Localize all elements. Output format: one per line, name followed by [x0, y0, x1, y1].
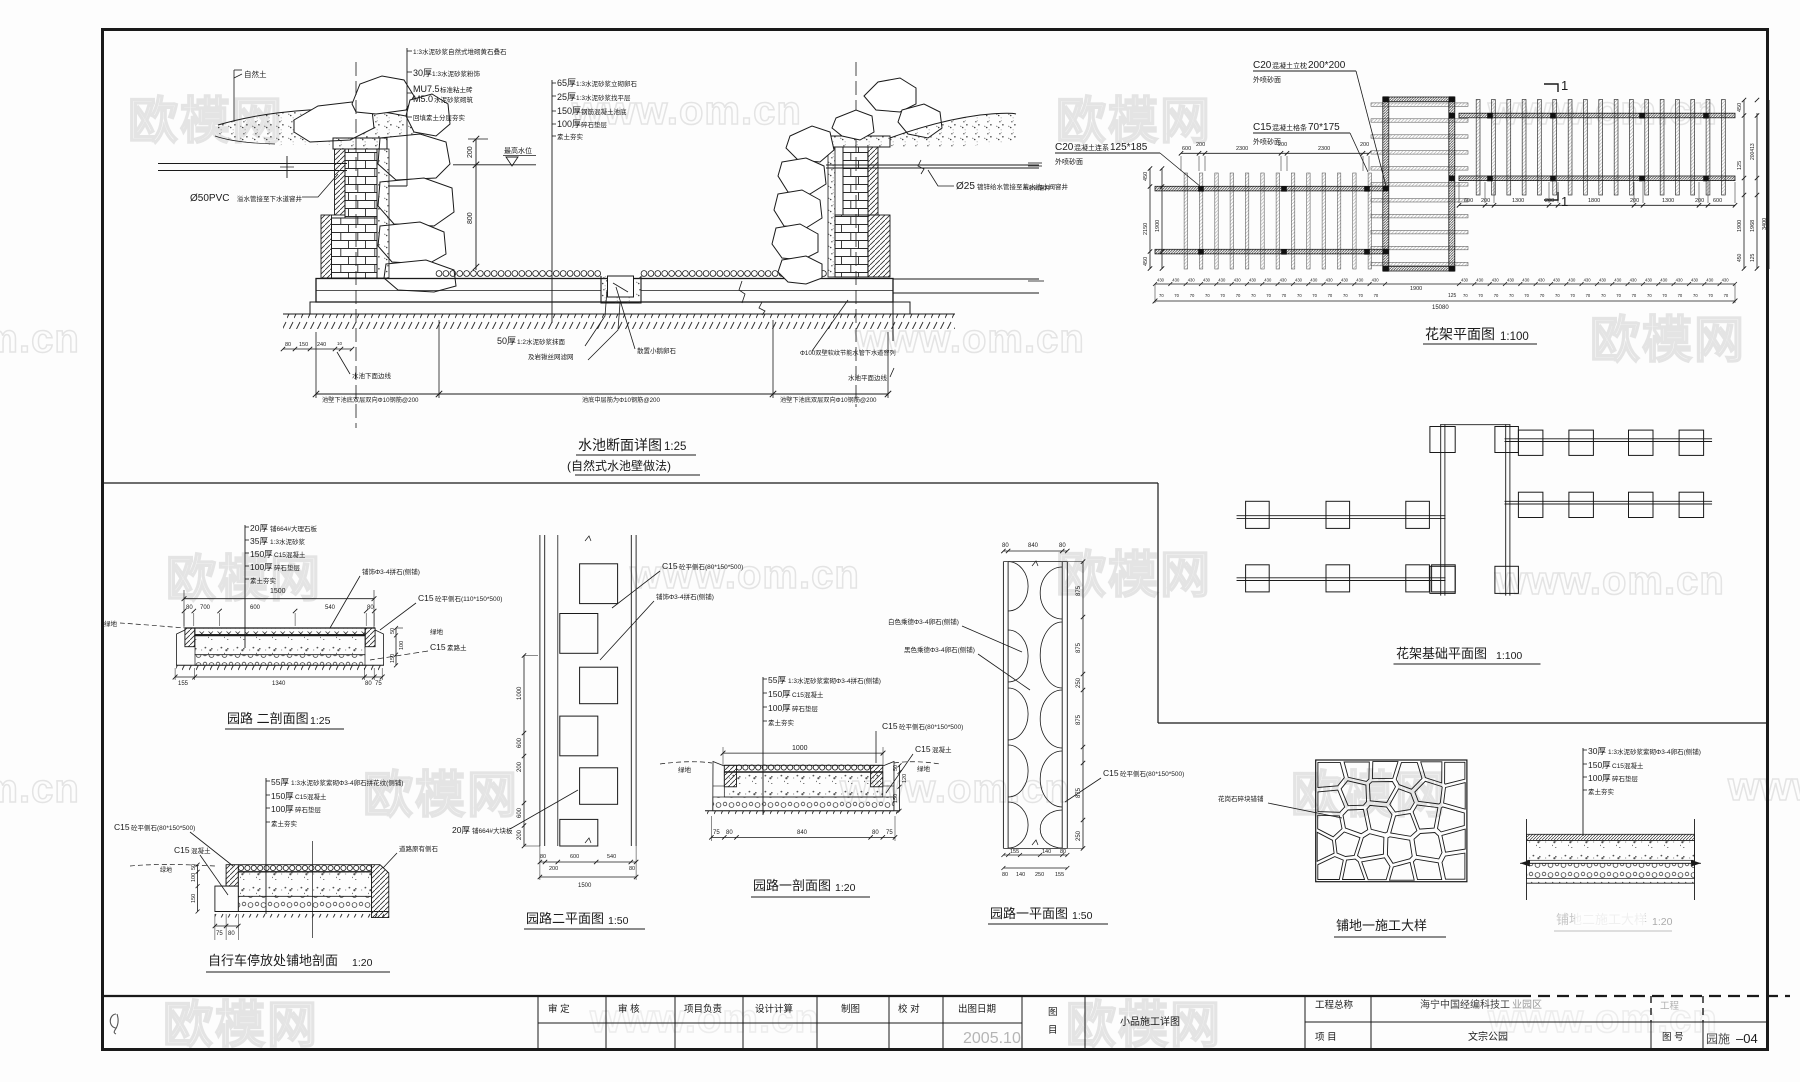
PVC overflow pipe	[158, 163, 347, 165]
svg-text:铺664#大理石板: 铺664#大理石板	[270, 524, 317, 533]
svg-text:C20: C20	[1253, 60, 1272, 71]
svg-text:70: 70	[1282, 293, 1287, 298]
svg-text:C15: C15	[114, 822, 130, 832]
svg-text:–04: –04	[1736, 1031, 1758, 1046]
svg-text:1500: 1500	[270, 588, 286, 595]
right wing footing beams	[1505, 438, 1712, 440]
svg-text:碎石垫层: 碎石垫层	[792, 704, 819, 713]
left wing slats	[1184, 173, 1187, 269]
svg-text:75: 75	[375, 681, 382, 687]
svg-text:素土夯实: 素土夯实	[271, 819, 298, 828]
svg-text:80: 80	[228, 931, 235, 937]
svg-text:70: 70	[1463, 293, 1468, 298]
svg-text:25厚: 25厚	[557, 92, 576, 102]
svg-text:混凝土立枕: 混凝土立枕	[1272, 61, 1307, 70]
svg-text:M5.0: M5.0	[413, 94, 433, 104]
svg-text:1:3水泥砂浆: 1:3水泥砂浆	[270, 537, 306, 546]
svg-text:70: 70	[1708, 293, 1713, 298]
svg-text:250: 250	[1035, 872, 1044, 878]
road 1 cross-section 1:20	[660, 675, 963, 897]
svg-text:200: 200	[549, 866, 558, 872]
svg-text:1:3水泥砂浆紫砌Φ3-4卵石拼花纹(侧铺): 1:3水泥砂浆紫砌Φ3-4卵石拼花纹(侧铺)	[291, 778, 403, 787]
svg-text:小品施工详图: 小品施工详图	[1120, 1015, 1180, 1028]
svg-text:430: 430	[1630, 278, 1638, 283]
svg-text:Φ100双壁软纹节能水管下水道窨列: Φ100双壁软纹节能水管下水道窨列	[800, 349, 896, 357]
svg-text:校 对: 校 对	[898, 1003, 920, 1015]
svg-text:150: 150	[390, 654, 396, 663]
svg-text:70: 70	[1509, 293, 1514, 298]
svg-text:150厚: 150厚	[768, 689, 791, 699]
section body	[736, 765, 741, 770]
centerline	[312, 841, 314, 938]
svg-text:1900: 1900	[1410, 286, 1422, 292]
svg-text:430: 430	[1476, 278, 1484, 283]
svg-text:240: 240	[317, 342, 326, 348]
svg-text:65厚: 65厚	[557, 78, 576, 88]
road 2 plan 1:50	[452, 535, 743, 929]
section body	[1527, 834, 1695, 840]
pergola plan 1:100	[1028, 60, 1769, 344]
svg-text:700: 700	[200, 605, 211, 611]
svg-text:450: 450	[1143, 257, 1149, 266]
svg-text:430: 430	[1660, 278, 1668, 283]
svg-text:430: 430	[1492, 278, 1500, 283]
svg-text:80: 80	[872, 830, 879, 836]
svg-text:混凝土连系: 混凝土连系	[1074, 143, 1109, 152]
svg-text:花架基础平面图: 花架基础平面图	[1396, 646, 1487, 661]
section body	[238, 865, 243, 870]
svg-text:70*175: 70*175	[1308, 122, 1340, 133]
svg-text:200: 200	[1481, 198, 1490, 204]
svg-text:C15: C15	[174, 845, 190, 855]
svg-text:875: 875	[1076, 714, 1082, 725]
right wing mid dim	[1459, 204, 1735, 206]
svg-text:430: 430	[1584, 278, 1592, 283]
svg-text:600: 600	[517, 807, 523, 818]
svg-text:欧模网: 欧模网	[1590, 312, 1746, 368]
svg-text:制图: 制图	[841, 1003, 860, 1015]
svg-text:80: 80	[629, 866, 635, 872]
svg-text:砼平侧石(80*150*500): 砼平侧石(80*150*500)	[899, 722, 963, 731]
sump pit	[601, 276, 641, 303]
svg-text:混凝土: 混凝土	[932, 745, 952, 754]
svg-text:80: 80	[285, 342, 291, 348]
right pond wall	[831, 136, 890, 147]
svg-text:工程: 工程	[1660, 1001, 1680, 1012]
svg-text:www.om.cn: www.om.cn	[1494, 559, 1725, 603]
pond cross-section detail	[158, 47, 1069, 475]
svg-text:430: 430	[1599, 278, 1607, 283]
bottom dims	[711, 836, 895, 838]
svg-text:875: 875	[1076, 585, 1082, 596]
svg-text:600: 600	[570, 854, 579, 860]
svg-text:图: 图	[1048, 1007, 1058, 1018]
bottom dims	[175, 676, 382, 678]
svg-text:园路 二剖面图: 园路 二剖面图	[227, 711, 309, 726]
svg-text:1:25: 1:25	[310, 715, 331, 727]
svg-text:430: 430	[1372, 278, 1380, 283]
svg-text:碎石垫层: 碎石垫层	[581, 120, 608, 129]
svg-text:最高水位: 最高水位	[504, 146, 532, 155]
svg-text:2300: 2300	[1236, 146, 1248, 152]
curbs	[724, 765, 736, 787]
svg-text:1968: 1968	[1750, 220, 1756, 232]
right dim column	[1082, 562, 1084, 849]
svg-text:450: 450	[1737, 253, 1743, 262]
svg-text:自然土: 自然土	[244, 69, 267, 79]
vertical dim 200 800	[475, 139, 477, 270]
notes column	[265, 778, 267, 914]
right wing footings	[1518, 430, 1543, 455]
svg-text:及岩锹丝网滤网: 及岩锹丝网滤网	[528, 352, 574, 361]
svg-text:1:3水泥砂浆紫砌Φ3-4卵石(侧铺): 1:3水泥砂浆紫砌Φ3-4卵石(侧铺)	[1608, 747, 1701, 756]
left curb	[226, 865, 238, 886]
wavy cobble pattern	[1008, 562, 1028, 611]
svg-text:70: 70	[1570, 293, 1575, 298]
svg-text:1800: 1800	[1588, 198, 1600, 204]
left dim column	[523, 655, 525, 846]
svg-text:园路二平面图: 园路二平面图	[526, 911, 604, 926]
svg-text:砼平侧石(80*150*500): 砼平侧石(80*150*500)	[131, 823, 195, 832]
svg-text:70: 70	[1297, 293, 1302, 298]
middle footing beams	[1440, 425, 1442, 596]
svg-text:C15混凝土: C15混凝土	[792, 690, 824, 699]
svg-text:50: 50	[191, 864, 197, 870]
svg-text:素土夯实: 素土夯实	[1588, 787, 1615, 796]
svg-text:140: 140	[1042, 849, 1051, 855]
paving 2 construction detail	[1520, 746, 1701, 931]
svg-text:2005.10: 2005.10	[963, 1030, 1021, 1047]
svg-text:10: 10	[337, 341, 343, 346]
svg-text:2300: 2300	[1318, 146, 1330, 152]
svg-text:125*185: 125*185	[1110, 142, 1148, 153]
svg-text:花岗石碎块错铺: 花岗石碎块错铺	[1218, 794, 1264, 803]
svg-text:C20: C20	[1055, 142, 1074, 153]
svg-text:外喷砂面: 外喷砂面	[1253, 75, 1281, 84]
svg-text:水池下面边线: 水池下面边线	[352, 371, 392, 380]
middle footings	[1430, 427, 1455, 453]
svg-text:1900: 1900	[1737, 220, 1743, 232]
svg-text:绿地: 绿地	[678, 765, 692, 774]
green edge dashes	[120, 623, 184, 628]
svg-text:250: 250	[1076, 830, 1082, 841]
svg-text:150: 150	[299, 342, 308, 348]
left dims	[197, 865, 199, 912]
section divider lines	[104, 482, 1158, 484]
svg-text:80: 80	[1059, 543, 1066, 549]
pond floor slab	[316, 279, 893, 303]
right wing slats	[1476, 100, 1480, 196]
svg-text:www.om.cn: www.om.cn	[1727, 765, 1800, 809]
svg-text:200: 200	[1360, 142, 1369, 148]
right vertical dims	[1743, 100, 1745, 269]
svg-text:白色乘德Φ3-4卵石(侧铺): 白色乘德Φ3-4卵石(侧铺)	[888, 617, 959, 626]
svg-text:20厚: 20厚	[250, 523, 268, 533]
svg-text:黑色乘德Φ3-4卵石(侧铺): 黑色乘德Φ3-4卵石(侧铺)	[904, 645, 975, 654]
svg-text:绿地: 绿地	[104, 619, 118, 628]
svg-text:70: 70	[1266, 293, 1271, 298]
svg-text:70: 70	[1478, 293, 1483, 298]
svg-text:450: 450	[1737, 103, 1743, 112]
svg-text:800: 800	[467, 212, 474, 224]
svg-text:150: 150	[893, 794, 899, 803]
svg-text:840: 840	[797, 830, 808, 836]
svg-text:图 号: 图 号	[1662, 1032, 1684, 1043]
svg-text:1340: 1340	[272, 681, 286, 687]
svg-text:540: 540	[325, 605, 336, 611]
svg-text:道路原有侧石: 道路原有侧石	[399, 844, 439, 853]
svg-text:430: 430	[1568, 278, 1576, 283]
svg-text:铺饰Φ3-4拼石(侧铺): 铺饰Φ3-4拼石(侧铺)	[362, 567, 420, 576]
svg-text:430: 430	[1341, 278, 1349, 283]
svg-text:Ø50PVC: Ø50PVC	[190, 193, 229, 204]
svg-text:C15: C15	[1253, 122, 1272, 133]
svg-text:70: 70	[1374, 293, 1379, 298]
svg-text:审 核: 审 核	[618, 1003, 640, 1015]
svg-text:100厚: 100厚	[557, 119, 581, 129]
strip edges	[1002, 562, 1004, 849]
svg-text:200*200: 200*200	[1308, 60, 1346, 71]
svg-text:80: 80	[1002, 543, 1009, 549]
svg-text:工程总称: 工程总称	[1315, 999, 1354, 1011]
svg-text:125: 125	[1448, 293, 1457, 299]
svg-text:(自然式水池壁做法): (自然式水池壁做法)	[567, 458, 671, 473]
svg-text:150厚: 150厚	[557, 106, 581, 116]
centerlines	[355, 62, 357, 428]
svg-text:30厚: 30厚	[1588, 746, 1606, 756]
svg-text:80: 80	[726, 830, 733, 836]
sub dims	[182, 609, 186, 613]
right small dims	[395, 628, 397, 665]
svg-text:200: 200	[1545, 198, 1554, 204]
svg-text:75: 75	[886, 830, 893, 836]
svg-text:海宁中国经编科技工: 海宁中国经编科技工	[1420, 998, 1510, 1011]
svg-text:碎石垫层: 碎石垫层	[274, 563, 301, 572]
svg-text:200: 200	[467, 146, 474, 158]
right wing beams	[1459, 113, 1735, 118]
svg-text:150: 150	[191, 894, 197, 903]
paving squares	[580, 564, 618, 604]
svg-text:2150: 2150	[1143, 223, 1149, 235]
svg-text:600: 600	[1182, 146, 1191, 152]
svg-text:840: 840	[1028, 543, 1039, 549]
svg-text:600: 600	[1713, 198, 1722, 204]
svg-text:绿地: 绿地	[160, 866, 172, 874]
svg-text:水泥砂浆砌筑: 水泥砂浆砌筑	[434, 95, 474, 104]
svg-text:C15: C15	[1103, 768, 1119, 778]
svg-text:混凝土格条: 混凝土格条	[1272, 123, 1307, 132]
svg-text:430: 430	[1706, 278, 1714, 283]
svg-text:C15: C15	[662, 561, 678, 571]
svg-text:150厚: 150厚	[250, 549, 273, 559]
bicycle parking paving section 1:20	[114, 777, 439, 972]
svg-text:100厚: 100厚	[768, 703, 791, 713]
svg-text:素路土: 素路土	[447, 643, 467, 652]
svg-text:155: 155	[178, 681, 189, 687]
right rocks	[864, 78, 916, 112]
svg-text:1: 1	[1561, 194, 1568, 209]
svg-text:回填素土分层夯实: 回填素土分层夯实	[413, 113, 466, 122]
svg-text:碎石垫层: 碎石垫层	[295, 805, 322, 814]
pond bottom dimensions	[315, 332, 317, 398]
svg-text:100厚: 100厚	[250, 562, 273, 572]
svg-text:欧模网: 欧模网	[363, 767, 519, 823]
svg-text:1:3水泥砂浆立砌卵石: 1:3水泥砂浆立砌卵石	[576, 79, 638, 88]
svg-text:目: 目	[1048, 1025, 1058, 1036]
svg-text:70: 70	[1662, 293, 1667, 298]
svg-text:155: 155	[1010, 849, 1019, 855]
right wedge	[372, 865, 389, 918]
svg-text:铺664#大块板: 铺664#大块板	[472, 826, 513, 835]
svg-text:镀锌给水管接至蓄水池水阀窨井: 镀锌给水管接至蓄水池水阀窨井	[977, 182, 1069, 191]
svg-text:70: 70	[1524, 293, 1529, 298]
svg-text:池底中层筋为Φ10钢筋@200: 池底中层筋为Φ10钢筋@200	[582, 396, 660, 404]
svg-text:70: 70	[1251, 293, 1256, 298]
svg-text:C15: C15	[430, 642, 446, 652]
svg-text:430: 430	[1676, 278, 1684, 283]
svg-text:C15: C15	[418, 593, 434, 603]
middle columns	[1383, 97, 1389, 271]
section markers	[1544, 84, 1558, 92]
notes column	[1582, 748, 1584, 836]
left pond wall	[333, 138, 387, 149]
svg-text:70: 70	[1494, 293, 1499, 298]
svg-text:430: 430	[1310, 278, 1318, 283]
svg-text:1:20: 1:20	[835, 882, 856, 894]
svg-text:园路一剖面图: 园路一剖面图	[753, 878, 831, 893]
bottom dims	[540, 861, 636, 863]
svg-text:100厚: 100厚	[271, 804, 294, 814]
svg-text:水池断面详图: 水池断面详图	[578, 437, 662, 453]
svg-text:430: 430	[1295, 278, 1303, 283]
svg-text:150厚: 150厚	[271, 791, 294, 801]
svg-text:1000: 1000	[792, 745, 808, 752]
svg-text:水池平面边线: 水池平面边线	[848, 373, 888, 382]
left notes	[406, 48, 408, 186]
svg-text:1:3水泥砂浆紫砌Φ3-4拼石(侧铺): 1:3水泥砂浆紫砌Φ3-4拼石(侧铺)	[788, 676, 881, 685]
svg-text:1900: 1900	[1155, 220, 1161, 232]
svg-text:55厚: 55厚	[768, 675, 786, 685]
svg-text:设计计算: 设计计算	[755, 1003, 793, 1015]
svg-text:80: 80	[540, 854, 546, 860]
left vertical dims	[1149, 168, 1151, 269]
middle posts	[1383, 186, 1389, 192]
svg-text:园施: 园施	[1706, 1032, 1730, 1046]
bottom dim rows	[1155, 283, 1735, 285]
svg-text:75: 75	[216, 931, 223, 937]
title block	[104, 995, 1519, 997]
svg-text:70: 70	[1205, 293, 1210, 298]
svg-text:1300: 1300	[1662, 198, 1674, 204]
svg-text:430: 430	[1614, 278, 1622, 283]
svg-text:1:25: 1:25	[664, 441, 686, 453]
bottom dims	[1003, 854, 1067, 856]
left wing beams	[1155, 186, 1385, 191]
svg-text:C15: C15	[915, 744, 931, 754]
svg-text:100: 100	[191, 873, 197, 882]
svg-text:绿地: 绿地	[917, 764, 931, 773]
svg-text:项 目: 项 目	[1315, 1032, 1337, 1043]
svg-text:430: 430	[1507, 278, 1515, 283]
svg-text:MU7.5: MU7.5	[413, 84, 440, 94]
svg-text:430: 430	[1538, 278, 1546, 283]
svg-text:1:100: 1:100	[1500, 331, 1529, 343]
svg-text:430: 430	[1691, 278, 1699, 283]
right wing posts	[1487, 113, 1493, 119]
svg-text:70: 70	[1632, 293, 1637, 298]
svg-text:430: 430	[1461, 278, 1469, 283]
svg-text:80: 80	[186, 605, 193, 611]
svg-text:C15混凝土: C15混凝土	[1612, 761, 1644, 770]
svg-text:430: 430	[1264, 278, 1272, 283]
svg-text:250: 250	[1076, 677, 1082, 688]
svg-text:欧模网: 欧模网	[163, 997, 319, 1053]
svg-text:80: 80	[367, 605, 374, 611]
svg-text:125: 125	[1750, 253, 1756, 262]
svg-text:素土夯实: 素土夯实	[768, 718, 795, 727]
svg-text:150厚: 150厚	[1588, 760, 1611, 770]
crazy paving stones	[1318, 762, 1344, 787]
svg-text:3400: 3400	[1762, 218, 1768, 230]
svg-text:1:100: 1:100	[1496, 650, 1522, 662]
svg-text:30厚: 30厚	[413, 68, 432, 78]
svg-text:200: 200	[1630, 198, 1639, 204]
svg-text:50厚: 50厚	[497, 336, 516, 346]
right dims	[899, 765, 901, 811]
svg-text:200: 200	[517, 829, 523, 840]
svg-text:Ø25: Ø25	[956, 181, 975, 192]
svg-text:70: 70	[1343, 293, 1348, 298]
svg-text:200: 200	[517, 761, 523, 772]
svg-text:125: 125	[1737, 161, 1743, 170]
left wing footing beams	[1237, 515, 1445, 517]
svg-text:430: 430	[1553, 278, 1561, 283]
svg-text:70: 70	[1236, 293, 1241, 298]
svg-text:素土夯实: 素土夯实	[557, 132, 584, 141]
left rocks	[294, 102, 374, 142]
svg-text:75: 75	[713, 830, 720, 836]
notes column	[762, 677, 764, 815]
svg-text:140: 140	[1016, 872, 1025, 878]
svg-text:100厚: 100厚	[1588, 773, 1611, 783]
svg-text:430: 430	[1203, 278, 1211, 283]
svg-text:70: 70	[1616, 293, 1621, 298]
svg-text:70: 70	[1174, 293, 1179, 298]
svg-text:15080: 15080	[1432, 305, 1449, 311]
svg-text:业园区: 业园区	[1512, 999, 1542, 1011]
svg-text:www.om.cn: www.om.cn	[629, 553, 860, 597]
svg-text:430: 430	[1722, 278, 1730, 283]
svg-text:砼平侧石(110*150*500): 砼平侧石(110*150*500)	[435, 594, 502, 603]
right notes	[551, 80, 553, 323]
svg-text:600: 600	[250, 605, 261, 611]
svg-text:600: 600	[517, 737, 523, 748]
fold mark 9	[110, 1014, 118, 1034]
svg-text:外喷砂面: 外喷砂面	[1253, 137, 1281, 146]
svg-text:430: 430	[1157, 278, 1165, 283]
svg-text:花架平面图: 花架平面图	[1425, 326, 1495, 342]
middle cross slats	[1371, 103, 1468, 106]
svg-text:430: 430	[1280, 278, 1288, 283]
svg-text:出图日期: 出图日期	[958, 1003, 996, 1015]
road 1 plan 1:50	[888, 543, 1184, 924]
svg-text:1:3水泥砂浆找平层: 1:3水泥砂浆找平层	[576, 93, 631, 102]
left wing footings	[1246, 501, 1270, 528]
svg-text:430: 430	[1249, 278, 1257, 283]
paving 1 construction detail	[1218, 760, 1467, 937]
svg-text:审 定: 审 定	[548, 1003, 570, 1015]
svg-text:70: 70	[1312, 293, 1317, 298]
